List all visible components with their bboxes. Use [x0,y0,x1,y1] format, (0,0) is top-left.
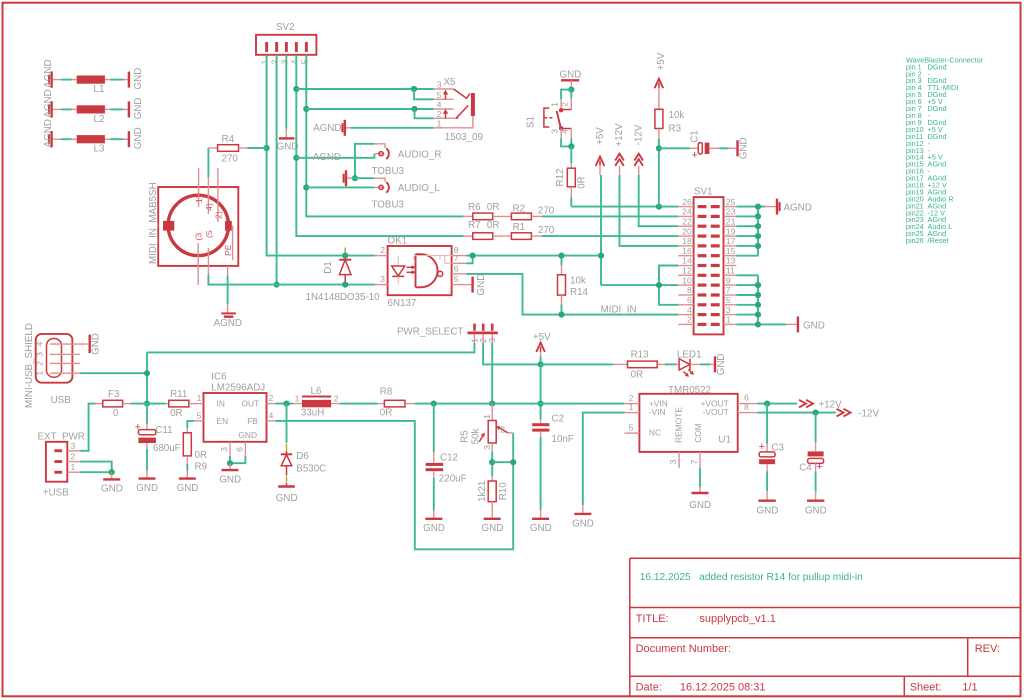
GND supply symbol (C1) [729,137,750,159]
GND supply symbol (EXT_PWR) [101,472,123,494]
resistor R13 [613,350,665,381]
resistor R6 [463,202,499,220]
svg-text:GND: GND [101,484,123,495]
svg-text:5: 5 [197,410,202,420]
svg-text:B530C: B530C [296,464,326,475]
svg-text:R11: R11 [170,389,187,400]
resistor R12 [555,163,587,198]
svg-text:TITLE:: TITLE: [636,613,669,625]
svg-text:10k: 10k [570,275,586,286]
svg-text:7: 7 [689,459,699,464]
connector USB MINI-USB_SHIELD [24,323,88,408]
svg-text:33uH: 33uH [301,408,324,419]
svg-text:26: 26 [682,197,692,207]
svg-text:/Reset: /Reset [928,236,949,245]
svg-text:680uF: 680uF [153,443,181,454]
supply arrow +5V (R3) [655,52,667,109]
svg-text:2: 2 [270,60,280,65]
junction S1 top [568,87,574,93]
svg-text:3: 3 [279,60,289,65]
svg-text:3: 3 [487,338,497,343]
svg-text:AGND: AGND [784,203,812,214]
svg-text:270: 270 [538,225,555,236]
net label MIDI_IN [601,304,637,315]
svg-text:GND: GND [91,333,102,355]
svg-text:L3: L3 [94,144,105,155]
svg-text:GND: GND [482,523,504,534]
svg-text:GND: GND [476,274,487,296]
GND supply symbol (C4) [805,491,827,516]
svg-text:+12V: +12V [614,123,625,147]
svg-text:+USB: +USB [43,487,69,498]
svg-text:R12: R12 [555,169,566,187]
svg-text:3: 3 [668,459,678,464]
resistor R2 [493,203,555,219]
svg-text:+: + [135,422,141,434]
GND supply symbol (D6) [276,487,298,505]
wire S1 bottom pins [561,138,571,146]
GND supply symbol (S1) [560,69,582,89]
resistor R14 [558,256,589,315]
junction SV2.5/AUDIO_L [303,184,309,190]
svg-text:2: 2 [71,452,76,462]
svg-text:+5V: +5V [595,127,606,145]
svg-text:0: 0 [113,408,119,419]
dc-dc IC6 LM2596ADJ [194,372,276,456]
svg-text:24: 24 [682,207,692,217]
supply arrow -12V (out) [837,409,880,420]
svg-text:3: 3 [726,305,731,315]
svg-text:GND: GND [560,69,582,80]
wire R9 to GND [186,464,188,471]
svg-text:12: 12 [682,266,692,276]
svg-text:5: 5 [437,90,442,100]
svg-text:COM: COM [693,423,703,443]
svg-text:FB: FB [247,416,258,426]
wire PWR_SELECT pin2 to +5V [483,343,540,365]
junction D1 anode [342,253,348,259]
junction AGND trunk row 17 [755,243,761,249]
svg-text:GND: GND [716,354,727,376]
wire L1 to GND [105,79,129,81]
capacitor C2 [532,414,574,445]
svg-text:4: 4 [437,100,442,110]
svg-text:GND: GND [530,523,552,534]
svg-text:GND: GND [739,137,750,159]
capacitor C1 [690,130,720,161]
junction GND trunk row 5 [755,302,761,308]
AGND supply symbol (SV1) [765,199,812,215]
WaveBlaster pinout legend [906,55,984,245]
GND symbol at OK1 pin5 [466,274,487,296]
svg-text:-VIN: -VIN [649,407,666,417]
svg-text:GND: GND [136,483,158,494]
svg-text:0R: 0R [487,220,500,231]
svg-text:GND: GND [238,430,257,440]
svg-text:3: 3 [71,441,76,451]
wire +VOUT to +12V [757,403,797,405]
resistor R4 [208,134,247,165]
svg-text:EN: EN [217,416,229,426]
dc-dc U1 TMR0522 [624,385,757,468]
svg-text:-12V: -12V [858,409,879,420]
optocoupler OK1 6N137 [375,236,466,309]
wire IC6 gnd pins [230,456,245,463]
svg-text:2: 2 [334,393,339,403]
resistor R8 [378,387,415,419]
svg-text:TMR0522: TMR0522 [668,385,711,396]
resistor R10 [477,476,509,518]
fuse F3 [96,389,131,419]
GND supply symbol (L1 row) [129,68,144,90]
junction SV2.4/AUDIO_R [293,155,299,161]
GND supply symbol (L2 row) [129,98,144,120]
junction F3/R11/C11 [144,401,150,407]
svg-text:C3: C3 [771,442,784,453]
junction SV2.2/MIDI5 [274,282,280,288]
svg-text:R13: R13 [631,350,650,361]
svg-text:1: 1 [437,118,442,128]
svg-text:2: 2 [500,425,505,435]
svg-text:REV:: REV: [975,643,1000,655]
wire L3 to GND [105,138,129,140]
svg-text:10k: 10k [669,110,685,121]
svg-text:2: 2 [34,361,44,366]
svg-text:17: 17 [726,236,736,246]
junction X5 tip net [411,86,417,92]
wire S1 to R12 [570,146,572,163]
svg-text:GND: GND [133,98,144,120]
wire LED1 to GND [700,363,710,365]
junction X5 ring net [411,106,417,112]
wire IC6 FB loop [276,421,514,549]
svg-text:+5V: +5V [533,332,551,343]
svg-text:19: 19 [726,226,736,236]
junction +VOUT/C3 [764,401,770,407]
wire AGND to L3 [53,138,77,140]
svg-text:3: 3 [380,274,385,284]
svg-text:IC6: IC6 [211,372,227,383]
junction GND trunk row 3 [755,312,761,318]
svg-text:TOBU3: TOBU3 [372,166,405,177]
svg-text:1: 1 [295,393,300,403]
resistor R7 [463,220,499,239]
wire R1 to SV1 pin20 [542,235,678,237]
svg-text:6: 6 [687,295,692,305]
svg-text:R9: R9 [195,462,208,473]
svg-text:4: 4 [269,410,274,420]
svg-text:5: 5 [629,423,634,433]
svg-text:2): 2) [213,211,223,219]
svg-text:2: 2 [560,102,570,107]
wire -12V to SV1 pin22 [639,175,679,226]
svg-text:1/1: 1/1 [962,682,977,694]
GND supply symbol (U1) [689,487,711,511]
wire +5V to R13 [541,363,614,365]
SV2 pin numbers 1-5 [260,60,310,65]
svg-text:MINI-USB_SHIELD: MINI-USB_SHIELD [24,323,35,408]
svg-text:R2: R2 [513,203,526,214]
svg-text:MIDI_IN: MIDI_IN [601,304,637,315]
wire C12 to GND [433,478,435,510]
resistor R11 [147,389,194,419]
wire +5V down to rail [540,364,542,419]
junction SV2.4/X5 [293,86,299,92]
junction audio sleeve [352,175,358,181]
wire SV2 pin4 vertical [296,55,463,236]
wire to C1 [659,147,690,149]
svg-text:GND: GND [423,523,445,534]
wire USB pin1 VBUS [80,372,147,374]
wire C11 to GND [146,449,148,471]
svg-text:16: 16 [682,246,692,256]
svg-text:C12: C12 [440,453,458,464]
svg-text:PE: PE [223,244,233,256]
svg-text:50k: 50k [471,429,482,445]
svg-text:AGND: AGND [214,318,242,329]
svg-text:0R: 0R [487,202,500,213]
svg-text:(5: (5 [204,230,214,238]
switch S1 [526,98,572,138]
svg-text:8: 8 [687,285,692,295]
junction SV2.5/X5 [303,106,309,112]
GND supply symbol (C3) [757,491,779,516]
wire SV2 pin2 vertical [276,55,278,285]
diode D6 B530C [281,404,326,487]
svg-text:10nF: 10nF [552,434,574,445]
svg-text:1k21: 1k21 [477,481,488,502]
svg-text:16.12.2025 added resistor R1: 16.12.2025 added resistor R14 for pullup… [640,572,863,583]
svg-text:270: 270 [538,206,555,217]
svg-text:-VOUT: -VOUT [703,407,729,417]
svg-text:GND: GND [757,505,779,516]
svg-text:D1: D1 [323,261,334,274]
connector AUDIO_L TOBU3 [372,178,441,210]
svg-text:AGND: AGND [313,152,341,163]
junction wiper tie [510,459,516,465]
diode D1 1N4148 [306,248,381,304]
junction +5V/R13 [538,361,544,367]
svg-text:GND: GND [689,500,711,511]
junction AGND trunk row 21 [755,223,761,229]
wire SV2 pin1 vertical [267,55,375,256]
svg-text:R10: R10 [498,482,509,501]
junction rail/R5 [489,401,495,407]
svg-text:0R: 0R [170,408,183,419]
junction VBUS pin1 [144,370,150,376]
connector X5 1503_09 jack [434,77,483,143]
svg-text:C2: C2 [552,414,565,425]
wire C3 to GND [766,472,768,492]
svg-text:2: 2 [380,245,385,255]
inductor L3 [77,135,105,155]
svg-text:18: 18 [682,236,692,246]
wire MIDI pin5 to OK1 [208,275,375,285]
junction R3/C1 [656,145,662,151]
svg-text:DGnd: DGnd [928,104,947,113]
GND supply symbol (USB shield) [90,333,102,355]
junction +5V/OK1 vcc [598,253,604,259]
GND supply symbol (L3 row) [129,127,144,149]
svg-text:1: 1 [726,315,731,325]
svg-text:270: 270 [222,154,239,165]
svg-text:R4: R4 [222,134,235,145]
svg-text:Sheet:: Sheet: [910,682,942,694]
supply arrow +12V (out) [799,400,842,411]
junction S1 bottom [568,143,574,149]
AGND supply symbol (L1 row) [43,59,54,87]
svg-text:C4: C4 [799,462,812,473]
wire AGND to L1 [53,79,77,81]
GND supply symbol (IC6) [219,463,241,485]
GND supply symbol (C2) [530,510,552,534]
svg-text:8: 8 [744,402,749,412]
connector EXT_PWR [38,432,85,499]
svg-text:1: 1 [482,414,492,419]
svg-text:1503_09: 1503_09 [445,132,483,143]
GND supply symbol (C12) [423,510,445,534]
junction R14 top [558,253,564,259]
svg-text:1N4148DO35-10: 1N4148DO35-10 [306,292,381,303]
AGND supply symbol (X5) [313,120,351,136]
potentiometer R5 [460,404,514,452]
svg-text:1: 1 [629,402,634,412]
wire to X5 pin2 [415,109,434,118]
wire AUDIO_L sleeve [355,177,374,179]
svg-text:GND: GND [805,505,827,516]
junction OK1 pin7/8 [470,253,476,259]
AGND supply symbol (audio) [313,152,355,186]
svg-text:SV1: SV1 [694,187,713,198]
svg-text:PWR_SELECT: PWR_SELECT [397,327,463,338]
svg-text:C1: C1 [690,130,701,143]
junction SV2.1/R4 [264,145,270,151]
svg-text:9: 9 [726,275,731,285]
junction R14 bottom [558,312,564,318]
wire IC6 EN to R9 [187,421,194,428]
svg-text:USB: USB [51,395,72,406]
svg-text:AGND: AGND [313,123,341,134]
wire +12V to SV1 pin18 [620,175,679,246]
svg-text:IN: IN [217,399,225,409]
svg-text:+: + [691,149,697,161]
svg-text:DGnd: DGnd [928,132,947,141]
svg-text:AGND: AGND [43,59,54,87]
svg-text:AUDIO_L: AUDIO_L [398,183,440,194]
svg-text:DGnd: DGnd [928,62,947,71]
svg-text:220uF: 220uF [439,474,467,485]
svg-text:20: 20 [682,226,692,236]
svg-text:1: 1 [550,102,560,107]
junction rail/C12 [431,401,437,407]
svg-text:AGND: AGND [43,119,54,147]
svg-text:GND: GND [219,474,241,485]
svg-text:GND: GND [177,483,199,494]
svg-text:16.12.2025 08:31: 16.12.2025 08:31 [680,682,766,694]
junction GND trunk row 7 [755,292,761,298]
wire EXT_PWR pin3 to F3 [80,404,96,451]
GND supply symbol (SV1) [786,316,825,332]
svg-text:LM2596ADJ: LM2596ADJ [211,383,265,394]
junction +5V row10 [656,282,662,288]
wire EXT_PWR pin1 to GND [80,471,112,473]
svg-text:R1: R1 [513,222,526,233]
GND supply symbol (-VIN) [572,505,594,529]
junction GND trunk row 9 [755,282,761,288]
svg-text:4: 4 [560,129,570,134]
wire L6 to R8 [340,403,378,405]
wire SV2 pin5 vertical [306,55,463,217]
wire +5V vertical from arrow [600,175,602,285]
svg-text:Date:: Date: [636,682,662,694]
GND symbol under SV2 [277,138,299,152]
wire AUDIO_R sleeve [355,144,374,178]
wire R2 to SV1 pin24 [542,215,678,217]
capacitor C11 [135,404,181,454]
svg-text:2: 2 [269,393,274,403]
capacitor C4 [799,413,823,474]
svg-text:LED1: LED1 [677,350,702,361]
wire AGND to L2 [53,108,77,110]
svg-text:L2: L2 [94,114,105,125]
wire EXT_PWR pin2 to GND [80,462,112,473]
svg-text:22: 22 [682,216,692,226]
svg-text:3: 3 [437,80,442,90]
AGND supply symbol (L3 row) [43,119,54,147]
wire R13 to LED1 [665,363,676,365]
wire to X5 pin5 [414,89,434,99]
wire R3 down to pin26 row [658,139,660,207]
svg-text:GND: GND [133,127,144,149]
title text [636,613,1000,694]
svg-text:R5: R5 [460,430,471,443]
svg-text:-12V: -12V [634,124,645,145]
svg-text:1: 1 [34,371,44,376]
wire OK1 pin6 to MIDI_IN [466,274,678,315]
resistor R9 [183,428,207,472]
svg-text:1): 1) [194,195,204,203]
svg-text:7: 7 [454,253,459,263]
capacitor C3 [759,404,785,472]
svg-text:GND: GND [803,320,825,331]
junction +5V rail/C2 [538,401,544,407]
wire S1 top pins [561,90,571,99]
wire U1 -VIN to GND [583,413,625,506]
svg-text:R8: R8 [380,387,393,398]
svg-text:1: 1 [71,462,76,472]
svg-text:3: 3 [482,445,492,450]
svg-text:+: + [816,461,822,473]
svg-text:S1: S1 [526,116,537,128]
LED LED1 [676,350,701,377]
connector AUDIO_R TOBU3 [372,144,442,177]
junction AGND trunk row 25 [755,204,761,210]
svg-text:5: 5 [454,274,459,284]
supply arrow -12V [634,124,645,175]
svg-text:0R: 0R [576,176,587,189]
connector PWR_SELECT jumper [397,324,498,343]
wire L2 to GND [105,108,129,110]
wire to X5 pin4 [306,108,434,110]
svg-text:MIDI_IN_MAB5SH: MIDI_IN_MAB5SH [148,182,159,264]
svg-text:F3: F3 [108,389,120,400]
svg-text:AGND: AGND [43,89,54,117]
wire C1 to GND [719,147,728,149]
wire AUDIO_L tip [306,186,384,188]
svg-text:6: 6 [744,392,749,402]
svg-text:6: 6 [454,264,459,274]
svg-text:R7: R7 [468,220,481,231]
